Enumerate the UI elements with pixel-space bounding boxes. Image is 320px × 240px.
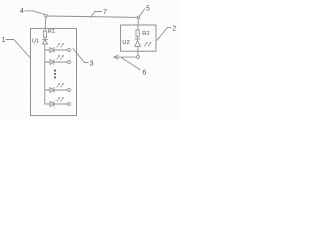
resistor R1: [43, 31, 46, 37]
output arrow: [114, 55, 137, 59]
label 7 leader: [91, 12, 102, 18]
node C: [137, 56, 140, 59]
LED 3: [50, 83, 68, 92]
label 4 leader: [25, 11, 45, 15]
svg-text:7: 7: [103, 9, 107, 16]
label 3 leader: [73, 49, 88, 63]
terminal node 1: [68, 49, 71, 52]
block U2 box: [121, 25, 156, 51]
node A: [45, 14, 48, 17]
wire row 2: [45, 61, 50, 63]
diode D1: [42, 37, 47, 44]
terminal node 4: [68, 103, 71, 106]
terminal node 2: [68, 61, 71, 64]
wire bus vertical: [44, 44, 46, 104]
LED 1: [50, 43, 68, 52]
resistor R2: [136, 30, 139, 36]
svg-text:5: 5: [146, 5, 150, 12]
block U1 box: [31, 28, 77, 115]
wire row 4: [45, 103, 50, 105]
wire photodiode to node C: [137, 46, 139, 55]
wire node A to R1: [44, 17, 47, 31]
LED 4: [50, 97, 68, 106]
terminal node 3: [68, 89, 71, 92]
svg-text:3: 3: [89, 59, 93, 68]
label 5 leader: [139, 9, 145, 17]
wire node B to R2: [137, 19, 140, 30]
ellipsis (more LEDs): [54, 70, 56, 79]
wire row 3: [45, 89, 50, 91]
label 6 leader: [122, 58, 141, 70]
svg-text:6: 6: [142, 70, 146, 77]
svg-text:2: 2: [172, 25, 176, 32]
svg-text:4: 4: [20, 8, 24, 15]
wire top horizontal: [48, 16, 138, 17]
label 2 leader: [157, 27, 171, 40]
svg-text:R2: R2: [142, 31, 149, 37]
wire row 1: [45, 49, 50, 51]
label 1 leader: [6, 40, 30, 59]
svg-text:U2: U2: [122, 40, 129, 46]
svg-text:R1: R1: [48, 29, 55, 35]
photodiode D5: [135, 36, 151, 46]
svg-text:1: 1: [2, 37, 6, 44]
node B: [137, 16, 140, 19]
svg-text:U1: U1: [32, 38, 39, 44]
LED 2: [50, 55, 68, 64]
